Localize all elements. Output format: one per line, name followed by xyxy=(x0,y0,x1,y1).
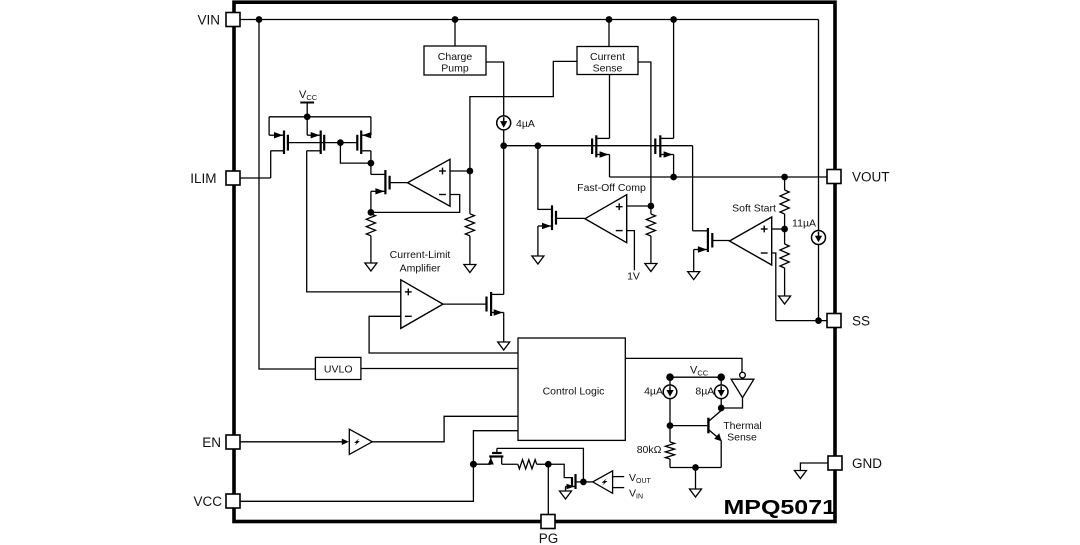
wire EN lead xyxy=(240,441,342,443)
pin PG xyxy=(541,515,555,529)
svg-text:Charge: Charge xyxy=(438,51,473,63)
block Current Sense xyxy=(577,47,638,75)
wire gate to Q3 drain xyxy=(340,143,371,164)
ground R3 xyxy=(645,264,657,272)
wire VCC lead xyxy=(240,431,518,502)
svg-text:Thermal: Thermal xyxy=(723,420,762,432)
wire gate node down to M6 drain xyxy=(503,146,505,295)
wire M1 source down xyxy=(370,191,372,214)
buffer EN xyxy=(349,429,372,454)
transistor Q4 NPN thermal sense xyxy=(670,408,722,441)
resistor R1 xyxy=(366,214,375,236)
current source 4uA xyxy=(497,116,511,130)
wire ILIM lead xyxy=(240,177,271,179)
transistor M5 NMOS soft-start xyxy=(693,228,730,253)
svg-text:80kΩ: 80kΩ xyxy=(637,444,662,456)
wire A3 plus node to R3 xyxy=(650,206,652,214)
wire VIN to charge pump xyxy=(454,20,456,47)
ground thermal xyxy=(690,489,702,497)
current source 8uA thermal xyxy=(714,385,728,399)
transistor Q2 PMOS xyxy=(307,117,325,154)
wire Q1 drain to ILIM xyxy=(270,151,272,178)
resistor R5 soft-start bottom xyxy=(780,244,789,268)
svg-text:Pump: Pump xyxy=(441,63,469,75)
svg-text:Fast-Off Comp: Fast-Off Comp xyxy=(577,182,646,194)
wire PG node to M8 gate xyxy=(548,464,572,477)
wire R3 to ground xyxy=(650,236,652,264)
svg-text:Sense: Sense xyxy=(593,63,623,75)
op-amp A1 current-limit first stage xyxy=(408,159,451,206)
wire A1 plus input xyxy=(450,170,470,172)
resistor R2 xyxy=(465,214,474,236)
ground GND pin xyxy=(794,471,806,479)
node VOUT-A xyxy=(670,174,677,181)
ground R5 xyxy=(779,296,791,304)
wire VOUT line xyxy=(610,176,828,178)
node thermal rail left xyxy=(666,373,674,381)
block UVLO xyxy=(315,357,361,379)
op-amp A4 soft-start xyxy=(730,217,772,265)
svg-text:SS: SS xyxy=(852,313,870,328)
pin SS xyxy=(827,314,841,328)
node VIN-A xyxy=(256,16,263,23)
node M1 source xyxy=(368,209,375,216)
transistor M3 power NMOS left xyxy=(592,135,609,157)
wire R7 to PG node xyxy=(537,463,549,465)
wire base node to R6 xyxy=(669,426,671,442)
wire M4 source down to VOUT line xyxy=(673,155,675,178)
wire M3 source down to VOUT line xyxy=(609,155,611,178)
wire R2 to ground xyxy=(469,236,471,265)
wire M2 drain up to gate node xyxy=(537,146,539,210)
svg-text:4µA: 4µA xyxy=(644,386,663,398)
transistor M2 NMOS fast-off input xyxy=(537,205,585,230)
wire gate line xyxy=(504,145,693,147)
wire SS line xyxy=(776,320,827,322)
resistor R3 xyxy=(646,214,655,236)
ground M8 xyxy=(560,491,572,499)
wire PG node to pin xyxy=(547,464,549,514)
arrow EN input xyxy=(342,439,349,445)
wire A3 minus to 1V xyxy=(627,231,635,271)
wire A2 minus to control logic xyxy=(369,316,518,353)
wire 8uA to collector node xyxy=(720,399,722,408)
wire mirror gate line xyxy=(288,142,357,144)
node VOUT-B xyxy=(781,174,788,181)
node comparator output xyxy=(580,479,587,486)
wire M4 drain up to VIN xyxy=(673,20,675,139)
ground R1 xyxy=(365,263,377,271)
wire VIN to current sense xyxy=(608,20,610,47)
svg-text:UVLO: UVLO xyxy=(324,364,353,376)
wire Q2 drain down to amp A2 plus xyxy=(307,151,401,292)
wire A4 minus to SS line xyxy=(772,253,776,321)
pin VIN xyxy=(226,13,240,27)
svg-text:11µA: 11µA xyxy=(792,218,816,230)
wire control logic to inverter xyxy=(625,358,742,372)
wire rail to 4uA xyxy=(669,377,671,385)
node VCC-PG xyxy=(470,461,477,468)
wire M6 source to ground xyxy=(503,313,505,343)
wire R1 to ground xyxy=(370,236,372,263)
inverter thermal xyxy=(731,372,754,397)
transistor M6 NMOS xyxy=(443,292,504,316)
op-amp A2 current-limit second stage xyxy=(401,280,443,329)
block Control Logic xyxy=(518,338,625,440)
op-amp A3 Fast-Off Comp xyxy=(585,195,627,243)
node base xyxy=(667,422,674,429)
wire divider to R5 xyxy=(784,229,786,244)
node Vcc rail xyxy=(304,113,311,120)
current source 11uA xyxy=(812,231,826,245)
wire VIN to UVLO xyxy=(259,20,315,370)
wire PG gate line xyxy=(497,448,584,482)
wire charge pump output xyxy=(486,62,504,116)
svg-text:ILIM: ILIM xyxy=(190,171,216,186)
svg-text:4µA: 4µA xyxy=(516,118,535,130)
svg-text:Amplifier: Amplifier xyxy=(400,263,441,275)
resistor R6 80k xyxy=(665,442,674,459)
pin GND xyxy=(828,456,842,470)
wire Vcc rail xyxy=(269,116,371,118)
node divider xyxy=(781,226,788,233)
node VIN-C xyxy=(606,16,613,23)
svg-text:VOUT: VOUT xyxy=(852,169,890,184)
wire Q3 drain down xyxy=(370,151,372,175)
svg-text:Sense: Sense xyxy=(727,432,757,444)
node gate-A xyxy=(500,142,507,149)
IC boundary box xyxy=(234,2,835,521)
wire PG comparator VIN input xyxy=(613,487,625,489)
wire 11uA to SS line xyxy=(818,245,820,321)
wire inverter output to collector node xyxy=(721,398,742,408)
pin EN xyxy=(226,435,240,449)
wire emitter down xyxy=(720,440,722,467)
node collector xyxy=(718,405,725,412)
svg-text:Current: Current xyxy=(590,51,625,63)
pin VOUT xyxy=(827,170,841,184)
wire gate line down to M5 drain xyxy=(692,146,694,231)
wire A1 minus feedback xyxy=(371,195,460,213)
label Thermal Sense xyxy=(723,420,762,444)
power Vcc symbol xyxy=(300,103,314,117)
svg-text:1V: 1V xyxy=(627,271,640,283)
svg-text:Current-Limit: Current-Limit xyxy=(390,249,451,261)
transistor M8 NMOS PG pull-down xyxy=(566,474,584,491)
wire 4uA to gate node xyxy=(503,130,505,146)
ground R2 xyxy=(464,265,476,273)
node PG xyxy=(545,461,552,468)
wire R4 to divider node xyxy=(784,214,786,229)
svg-text:MPQ5071: MPQ5071 xyxy=(724,497,837,519)
svg-text:GND: GND xyxy=(852,456,882,471)
svg-text:8µA: 8µA xyxy=(695,386,714,398)
node A3 plus xyxy=(648,203,655,210)
node Q3 drain xyxy=(368,160,375,167)
transistor M7 PMOS PG pass xyxy=(473,448,517,464)
label Current-Limit Amplifier xyxy=(390,249,451,275)
svg-text:VCC: VCC xyxy=(193,494,222,509)
wire UVLO to control logic xyxy=(361,368,518,370)
wire VIN to 11uA source xyxy=(818,20,820,231)
node VIN-D xyxy=(670,16,677,23)
transistor Q1 PMOS xyxy=(269,117,288,154)
ground M6 xyxy=(498,342,510,350)
wire VOUT node to R4 xyxy=(784,177,786,190)
comparator PG xyxy=(593,471,613,494)
pin VCC xyxy=(226,494,240,508)
pin ILIM xyxy=(226,171,240,185)
wire thermal bottom rail xyxy=(670,467,721,469)
transistor Q3 PMOS xyxy=(357,117,371,154)
wire comparator output xyxy=(583,481,592,483)
block Charge Pump xyxy=(424,46,486,75)
node mirror gate xyxy=(337,139,344,146)
wire current sense right output xyxy=(638,62,651,206)
wire rail to 8uA xyxy=(720,377,722,385)
node thermal rail right xyxy=(717,373,725,381)
wire thermal ground stub xyxy=(695,468,697,490)
wire current sense left output xyxy=(470,61,577,213)
svg-text:EN: EN xyxy=(202,435,221,450)
wire Vcc rail thermal xyxy=(670,376,721,378)
svg-text:PG: PG xyxy=(539,531,559,545)
wire EN buffer to control logic xyxy=(372,416,518,442)
wire R6 to bottom rail xyxy=(669,459,671,468)
wire A3 plus input xyxy=(627,205,651,207)
svg-text:VIN: VIN xyxy=(197,12,220,27)
wire R5 to ground xyxy=(784,268,786,296)
ground M2 xyxy=(532,256,544,264)
current source 4uA thermal xyxy=(663,385,677,399)
wire M2 source down xyxy=(537,226,539,256)
node gate-B xyxy=(535,142,542,149)
wire A4 plus input xyxy=(772,228,785,230)
wire VIN rail xyxy=(240,19,819,21)
node VIN-B xyxy=(452,16,459,23)
wire GND pin stub xyxy=(800,463,828,471)
node thermal ground xyxy=(692,464,699,471)
node A1 plus xyxy=(467,168,474,175)
resistor R7 PG xyxy=(518,460,537,469)
transistor M4 power NMOS right xyxy=(655,135,673,157)
wire 4uA to base node xyxy=(669,399,671,426)
svg-text:Control Logic: Control Logic xyxy=(543,386,605,398)
node SS xyxy=(815,317,822,324)
wire current sense to left FET drain xyxy=(609,75,611,139)
resistor R4 soft-start top xyxy=(780,190,789,214)
transistor M1 NMOS xyxy=(371,170,408,195)
ground M5 xyxy=(688,272,700,280)
svg-text:Soft Start: Soft Start xyxy=(732,203,776,215)
wire PG comparator VOUT input xyxy=(613,476,625,478)
wire M5 source down xyxy=(693,250,695,272)
